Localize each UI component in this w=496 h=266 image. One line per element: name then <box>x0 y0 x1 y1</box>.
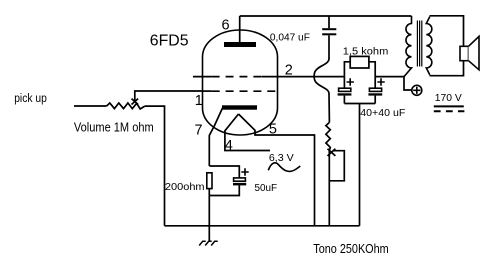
svg-text:7: 7 <box>195 122 203 138</box>
filter capacitor 40uF left plus <box>347 78 354 85</box>
tone capacitor 0,047 uF lead <box>328 16 330 28</box>
output transformer primary winding <box>404 16 412 77</box>
filter capacitor 40uF left bottom plate <box>338 93 352 95</box>
cathode capacitor 50uF plus sign <box>241 168 248 175</box>
tone potentiometer wiper tie loop <box>329 151 344 181</box>
wire wiper to grid pin 1 <box>135 91 204 101</box>
svg-text:50uF: 50uF <box>255 183 278 194</box>
ground bus wire <box>165 225 360 227</box>
speaker cone <box>469 36 480 69</box>
filter capacitor 40uF right bottom plate <box>368 93 382 95</box>
filter capacitor 40uF right top plate <box>369 88 381 91</box>
wire cathode RC bottom branch <box>209 185 239 195</box>
B+ terminal circle plus <box>412 85 422 95</box>
AC sine squiggle <box>268 163 300 172</box>
filter capacitor 40uF left top plate <box>339 88 351 91</box>
wire input from pick up <box>74 105 107 107</box>
volume potentiometer wiper arrow X <box>132 99 139 105</box>
tone potentiometer element to ground bus <box>328 151 330 226</box>
cathode lead to pin 7 <box>209 108 222 166</box>
screen grid dashed (pin 2) left stub <box>193 76 212 78</box>
filament V left leg (pin 4) <box>225 114 270 151</box>
svg-text:0,047 uF: 0,047 uF <box>270 33 310 44</box>
DC symbol dashed line <box>434 110 465 112</box>
filter capacitor 40uF left lead <box>343 77 345 89</box>
wire caps center tap to ground bus <box>359 104 361 226</box>
svg-text:4: 4 <box>225 138 233 154</box>
tone potentiometer 250K element zigzag <box>326 122 330 150</box>
cathode capacitor 50uF bottom plate <box>233 183 246 186</box>
plate bar (pin 6) <box>224 42 256 47</box>
wire B+ node to transformer primary bottom <box>375 77 412 90</box>
chassis ground symbol <box>199 241 218 245</box>
svg-text:1,5 kohm: 1,5 kohm <box>343 46 389 57</box>
svg-text:6FD5: 6FD5 <box>150 33 189 50</box>
cathode resistor 200ohm body <box>207 173 212 189</box>
tone capacitor 0,047 uF top plate <box>322 28 336 30</box>
output transformer core <box>417 21 421 67</box>
wire hop to tone pot <box>328 94 330 123</box>
pin 6 lead <box>239 16 241 43</box>
resistor 1,5 kohm body <box>350 56 369 68</box>
svg-text:200ohm: 200ohm <box>165 182 205 193</box>
crossover hop arc <box>314 59 329 94</box>
svg-text:6,3 V: 6,3 V <box>269 153 294 164</box>
filter capacitor 40uF right bottom lead <box>374 96 376 104</box>
svg-text:Tono 250KOhm: Tono 250KOhm <box>313 242 388 256</box>
resistor 1,5 kohm right lead <box>369 62 375 77</box>
resistor 1,5 kohm left lead <box>344 62 350 77</box>
tone capacitor 0,047 uF bottom plate <box>322 33 336 35</box>
speaker driver <box>460 46 469 60</box>
wire cap to hop <box>328 35 330 59</box>
svg-text:2: 2 <box>285 63 293 79</box>
wire plate to output transformer (top) <box>240 15 412 17</box>
svg-text:40+40 uF: 40+40 uF <box>360 107 405 119</box>
svg-text:pick up: pick up <box>14 93 47 105</box>
filament V right leg and heater return wire (pin 5) <box>239 114 315 226</box>
filter capacitor 40uF right plus <box>377 78 384 85</box>
svg-text:5: 5 <box>269 122 277 138</box>
tube V1 envelope <box>203 30 278 135</box>
speaker wiring loop <box>430 16 464 76</box>
wire cathode resistor to chassis ground <box>208 189 210 242</box>
DC symbol solid line <box>434 105 464 107</box>
filter capacitor 40uF right lead <box>374 77 376 89</box>
wire joining filter caps bottoms <box>344 103 375 105</box>
cathode capacitor 50uF top plate <box>234 178 246 181</box>
volume potentiometer 1M ohm element <box>107 103 145 109</box>
filter capacitor 40uF left bottom lead <box>343 96 345 104</box>
svg-text:1: 1 <box>195 93 203 109</box>
svg-text:Volume 1M ohm: Volume 1M ohm <box>74 120 154 135</box>
tone potentiometer wiper arrow X <box>328 149 336 156</box>
wire volume right terminal to ground bus <box>145 106 165 226</box>
output transformer secondary winding <box>426 17 432 75</box>
control grid left stub <box>204 90 212 92</box>
control grid dashed (pin 1) <box>212 90 276 92</box>
screen grid dashed line <box>212 76 262 78</box>
svg-text:170 V: 170 V <box>435 93 462 104</box>
wire cathode RC top branch <box>209 166 239 178</box>
svg-text:6: 6 <box>222 17 230 33</box>
wire screen grid pin 2 to supply node <box>262 76 345 78</box>
cathode bar <box>222 105 257 109</box>
